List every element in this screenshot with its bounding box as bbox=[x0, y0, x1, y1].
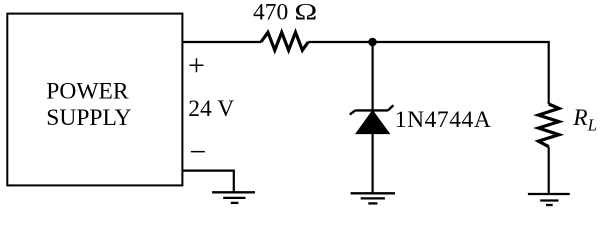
resistor R1 470 ohm zigzag bbox=[261, 32, 308, 50]
wire: node A down to zener D1 cathode bbox=[372, 42, 374, 110]
svg-text:24 V: 24 V bbox=[188, 96, 234, 122]
wire: resistor RL to ground bbox=[548, 147, 550, 194]
resistor RL zigzag bbox=[538, 104, 559, 147]
wire: resistor R1 to node A bbox=[308, 41, 372, 43]
svg-text:SUPPLY: SUPPLY bbox=[46, 105, 131, 131]
ground (load branch) bbox=[528, 194, 570, 205]
power supply PS1 box bbox=[7, 14, 182, 186]
svg-text:470: 470 bbox=[253, 0, 288, 26]
zener diode D1 (cathode bar with bent tails, anode triangle) bbox=[350, 105, 394, 133]
ground (power supply return) bbox=[212, 192, 255, 203]
node A junction dot bbox=[368, 38, 377, 47]
wire: zener D1 anode to ground bbox=[372, 134, 374, 194]
ground (zener branch) bbox=[351, 193, 395, 203]
svg-text:+: + bbox=[188, 49, 205, 82]
svg-text:RL: RL bbox=[572, 105, 597, 135]
svg-text:1N4744A: 1N4744A bbox=[395, 107, 492, 133]
wire: power supply negative terminal to ground (L-shape) bbox=[182, 171, 233, 193]
wire: node A to load corner bbox=[373, 41, 550, 43]
svg-text:−: − bbox=[189, 135, 206, 168]
label POWER SUPPLY bbox=[46, 79, 131, 131]
wire: power supply output to resistor R1 bbox=[182, 41, 261, 43]
svg-text:POWER: POWER bbox=[46, 79, 129, 105]
svg-text:Ω: Ω bbox=[294, 0, 317, 25]
wire: corner down to load resistor RL bbox=[548, 42, 550, 104]
